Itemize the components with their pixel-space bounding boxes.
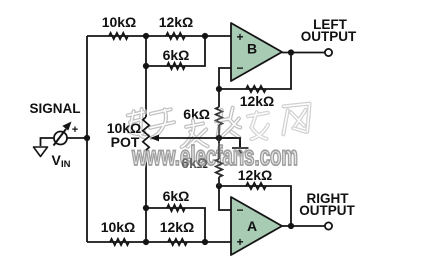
resistor 6k upper middle redrawn xyxy=(216,107,222,125)
wire op-amp A inverting input branch xyxy=(219,186,231,210)
resistor 10k top xyxy=(109,33,128,39)
wire left bus vertical xyxy=(86,36,88,242)
resistor 12k feedback A xyxy=(246,183,266,189)
junction node T1 top xyxy=(143,33,149,39)
wire ground branch from mid node xyxy=(219,138,240,147)
svg-text:+: + xyxy=(236,30,243,44)
svg-text:12kΩ: 12kΩ xyxy=(159,14,194,30)
junction node B feedback xyxy=(216,86,222,92)
wire middle attenuator column redrawn xyxy=(218,95,220,186)
potentiometer wiper arrow xyxy=(156,137,219,139)
svg-text:B: B xyxy=(247,41,257,57)
wire source to ground xyxy=(41,138,55,146)
wire top rail (VIN node to op-amp B + input) xyxy=(87,35,231,37)
svg-text:10kΩ: 10kΩ xyxy=(102,14,137,30)
svg-text:10kΩ: 10kΩ xyxy=(101,219,136,235)
ground at attenuator midpoint xyxy=(232,147,249,149)
signal source VIN circle xyxy=(54,132,67,145)
wire op-amp B output xyxy=(282,52,325,54)
resistor 6k bottom row xyxy=(167,205,185,211)
resistor 6k lower middle redrawn xyxy=(216,159,222,177)
svg-text:12kΩ: 12kΩ xyxy=(160,219,195,235)
signal source arrow xyxy=(54,129,67,146)
svg-text:+: + xyxy=(236,235,243,249)
wire op-amp A feedback row xyxy=(219,186,291,226)
wire bottom rail (VIN node to op-amp A + input) xyxy=(87,241,231,243)
svg-text:12kΩ: 12kΩ xyxy=(240,93,275,109)
wire source to bus xyxy=(67,137,87,139)
junction node top 6k row left xyxy=(143,63,149,69)
op-amp B xyxy=(231,23,282,81)
junction node VIN on left bus xyxy=(84,135,90,141)
wire op-amp B inverting input branch xyxy=(219,68,231,89)
resistor 12k feedback B xyxy=(246,86,266,92)
svg-text:SIGNAL: SIGNAL xyxy=(29,101,80,116)
svg-text:6kΩ: 6kΩ xyxy=(163,188,190,204)
svg-text:A: A xyxy=(247,218,257,234)
op-amp A xyxy=(231,197,282,255)
wire middle attenuator column xyxy=(218,89,220,186)
resistor 6k lower middle xyxy=(216,159,222,177)
junction node attenuator midpoint xyxy=(216,135,222,141)
svg-text:POT: POT xyxy=(111,134,140,150)
wire bottom 6k row xyxy=(146,208,205,242)
junction node B1 bottom xyxy=(143,239,149,245)
terminal RIGHT OUTPUT xyxy=(325,222,332,229)
resistor 10k bottom xyxy=(110,239,129,245)
resistor 12k top xyxy=(166,33,185,39)
wire ground branch from mid node redrawn xyxy=(219,138,240,147)
svg-text:6kΩ: 6kΩ xyxy=(181,155,208,171)
svg-text:−: − xyxy=(236,61,243,75)
junction node B output xyxy=(288,49,294,55)
wire op-amp A output xyxy=(282,225,325,227)
resistor 12k bottom xyxy=(168,239,187,245)
svg-text:−: − xyxy=(236,203,243,217)
svg-text:6kΩ: 6kΩ xyxy=(163,47,190,63)
svg-text:OUTPUT: OUTPUT xyxy=(301,29,357,44)
wire top 6k row xyxy=(146,36,205,66)
svg-text:+: + xyxy=(72,124,78,136)
junction node A output xyxy=(288,223,294,229)
resistor 6k upper middle xyxy=(216,107,222,125)
wire pot branch vertical (node T1 to node B1) xyxy=(145,36,147,242)
svg-text:OUTPUT: OUTPUT xyxy=(299,203,355,218)
resistor 6k top row xyxy=(167,63,185,69)
svg-text:V: V xyxy=(52,152,62,168)
watermark url www.elecfans.com xyxy=(131,140,298,171)
junction node A feedback xyxy=(216,183,222,189)
watermark chinese characters xyxy=(128,104,311,149)
svg-text:6kΩ: 6kΩ xyxy=(183,106,210,122)
svg-text:IN: IN xyxy=(61,159,71,170)
ground at signal source xyxy=(34,147,48,157)
junction node B2 bottom xyxy=(202,239,208,245)
wire op-amp B feedback row xyxy=(219,53,291,90)
potentiometer 10k POT body xyxy=(143,117,149,150)
junction node T2 top xyxy=(202,33,208,39)
junction node bottom 6k row left xyxy=(143,205,149,211)
terminal LEFT OUTPUT xyxy=(325,49,332,56)
